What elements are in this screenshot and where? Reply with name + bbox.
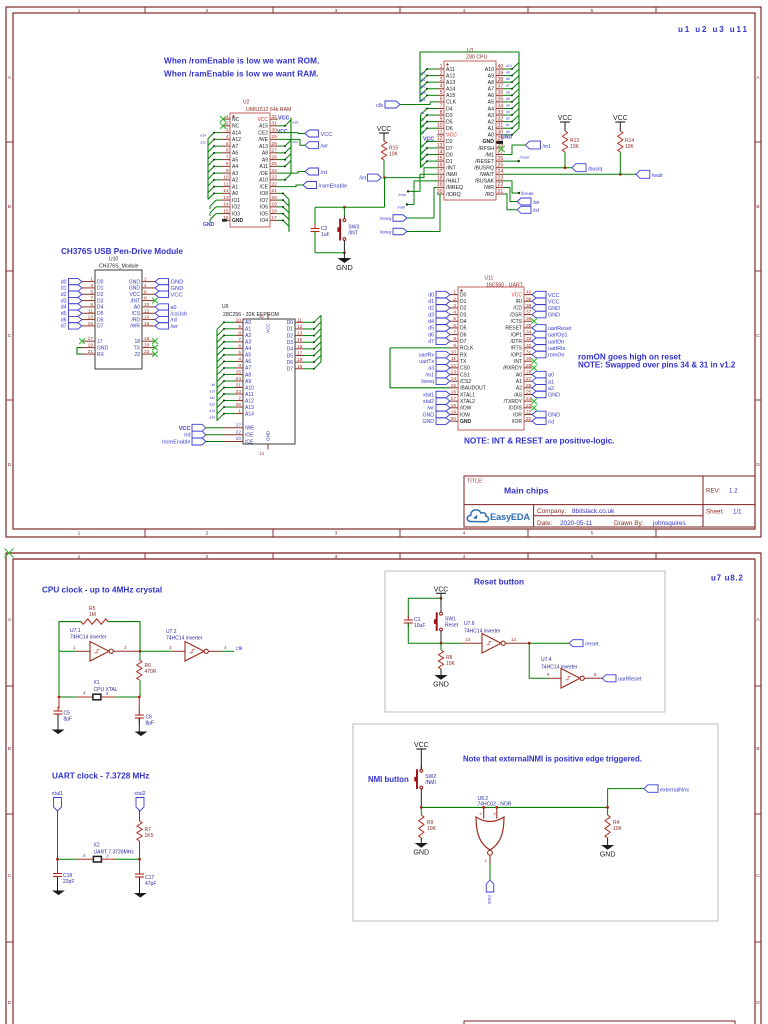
- svg-text:3: 3: [238, 363, 241, 369]
- svg-text:GND: GND: [336, 263, 353, 272]
- svg-text:8pF: 8pF: [64, 717, 73, 723]
- svg-text:2: 2: [226, 121, 229, 127]
- svg-text:74HC14 inverter: 74HC14 inverter: [70, 635, 107, 641]
- svg-text:a1: a1: [548, 379, 554, 385]
- svg-text:IO4: IO4: [260, 218, 268, 224]
- svg-text:/OP2: /OP2: [511, 352, 523, 358]
- svg-text:GND: GND: [413, 848, 429, 856]
- svg-text:/WE: /WE: [245, 426, 255, 432]
- svg-text:VCC: VCC: [558, 115, 573, 122]
- svg-text:TITLE:: TITLE:: [467, 479, 483, 485]
- svg-text:C: C: [756, 873, 760, 879]
- svg-text:GND: GND: [171, 280, 184, 286]
- svg-text:D3: D3: [97, 298, 104, 304]
- svg-text:2: 2: [124, 645, 127, 650]
- svg-text:A3: A3: [488, 113, 494, 119]
- svg-text:A9: A9: [262, 157, 268, 163]
- svg-text:4: 4: [226, 134, 229, 140]
- svg-text:3: 3: [226, 127, 229, 133]
- svg-text:14: 14: [259, 451, 264, 456]
- svg-text:5: 5: [440, 90, 443, 96]
- svg-text:a12: a12: [209, 403, 215, 407]
- svg-text:GND: GND: [422, 419, 434, 425]
- svg-text:VCC: VCC: [414, 742, 429, 749]
- svg-text:/WR: /WR: [130, 324, 140, 330]
- svg-text:a14: a14: [200, 134, 206, 138]
- svg-text:29: 29: [526, 363, 532, 369]
- svg-text:2: 2: [453, 296, 456, 302]
- svg-text:/wr: /wr: [533, 200, 540, 206]
- svg-text:u1 u2 u3 u11: u1 u2 u3 u11: [678, 25, 749, 34]
- svg-text:22: 22: [144, 349, 150, 355]
- svg-text:d6: d6: [428, 332, 434, 338]
- svg-text:26: 26: [236, 402, 242, 408]
- svg-text:D7: D7: [446, 146, 453, 152]
- svg-text:d0: d0: [61, 279, 67, 285]
- svg-text:/IOW: /IOW: [460, 406, 472, 412]
- svg-text:28C256 - 32K EEPROM: 28C256 - 32K EEPROM: [223, 312, 279, 318]
- svg-text:/WR: /WR: [484, 185, 494, 191]
- svg-text:/rd: /rd: [533, 208, 539, 214]
- svg-text:/mreq: /mreq: [379, 216, 391, 221]
- svg-text:3: 3: [440, 77, 443, 83]
- svg-text:/OE: /OE: [245, 433, 254, 439]
- svg-text:1: 1: [238, 409, 241, 415]
- svg-text:25: 25: [272, 161, 278, 167]
- svg-text:/MREQ: /MREQ: [446, 185, 463, 191]
- svg-text:6: 6: [440, 97, 443, 103]
- svg-text:IO3: IO3: [232, 211, 240, 217]
- svg-text:21: 21: [88, 349, 94, 355]
- svg-text:a0: a0: [506, 130, 510, 134]
- svg-text:26: 26: [526, 383, 532, 389]
- svg-text:A13: A13: [259, 144, 268, 150]
- svg-text:RX: RX: [460, 352, 468, 358]
- svg-text:a3: a3: [506, 110, 510, 114]
- svg-text:D7: D7: [287, 367, 294, 373]
- svg-text:/OP1: /OP1: [511, 332, 523, 338]
- svg-text:a10: a10: [506, 64, 512, 68]
- svg-text:26: 26: [272, 154, 278, 160]
- svg-text:D: D: [8, 1000, 12, 1006]
- svg-text:18: 18: [297, 357, 303, 363]
- svg-text:VCC: VCC: [321, 132, 333, 138]
- svg-text:d3: d3: [61, 298, 67, 304]
- svg-text:d6: d6: [61, 317, 67, 323]
- svg-text:GND: GND: [97, 345, 109, 351]
- svg-text:IO5: IO5: [260, 211, 268, 217]
- svg-text:A5: A5: [232, 157, 238, 163]
- svg-text:D1: D1: [446, 159, 453, 165]
- svg-text:U2: U2: [243, 100, 250, 106]
- svg-text:INT: INT: [514, 359, 522, 365]
- svg-text:U1: U1: [467, 48, 474, 54]
- svg-text:/busrq: /busrq: [588, 167, 603, 173]
- svg-text:13: 13: [465, 637, 470, 642]
- svg-text:9: 9: [440, 116, 443, 122]
- svg-text:18: 18: [437, 176, 443, 182]
- svg-text:uartReset: uartReset: [618, 677, 642, 683]
- svg-text:a9: a9: [506, 71, 510, 75]
- svg-text:RCLK: RCLK: [460, 346, 474, 352]
- svg-text:VCC: VCC: [511, 292, 522, 298]
- svg-text:3: 3: [106, 691, 109, 696]
- svg-text:A4: A4: [245, 346, 251, 352]
- svg-text:/RTS: /RTS: [511, 346, 523, 352]
- svg-text:1: 1: [90, 277, 93, 283]
- svg-text:4: 4: [463, 8, 466, 14]
- svg-text:CS1: CS1: [460, 372, 470, 378]
- svg-text:/WAIT: /WAIT: [480, 172, 495, 178]
- svg-text:X1: X1: [94, 680, 100, 686]
- svg-text:GND: GND: [129, 279, 141, 285]
- svg-text:3: 3: [335, 554, 338, 560]
- svg-text:Sheet:: Sheet:: [706, 509, 724, 516]
- svg-text:a0: a0: [171, 305, 177, 311]
- svg-text:GND: GND: [129, 286, 141, 292]
- svg-text:19: 19: [437, 182, 443, 188]
- svg-text:24: 24: [498, 169, 504, 175]
- svg-text:A11: A11: [446, 67, 455, 73]
- svg-text:Date:: Date:: [537, 520, 552, 527]
- svg-text:36: 36: [498, 90, 504, 96]
- svg-text:U7.2: U7.2: [166, 629, 177, 635]
- svg-text:/WE: /WE: [259, 137, 269, 143]
- svg-text:a13: a13: [420, 85, 426, 89]
- svg-text:RX: RX: [97, 352, 105, 358]
- svg-text:uartOp1: uartOp1: [548, 333, 567, 339]
- svg-text:D6: D6: [446, 126, 453, 132]
- svg-text:23: 23: [236, 389, 242, 395]
- svg-text:a12: a12: [420, 78, 426, 82]
- svg-text:24: 24: [236, 376, 242, 382]
- svg-text:VCC: VCC: [257, 117, 268, 123]
- svg-text:21: 21: [272, 188, 278, 194]
- svg-text:a2: a2: [506, 117, 510, 121]
- svg-text:1M: 1M: [89, 612, 96, 618]
- svg-text:A14: A14: [446, 87, 455, 93]
- svg-text:/reset: /reset: [585, 642, 599, 648]
- svg-text:d5: d5: [428, 326, 434, 332]
- svg-text:25: 25: [236, 369, 242, 375]
- svg-text:8pF: 8pF: [146, 721, 155, 727]
- svg-text:32: 32: [526, 343, 532, 349]
- svg-text:a7: a7: [506, 84, 510, 88]
- svg-text:10: 10: [144, 302, 150, 308]
- svg-text:/CTS: /CTS: [511, 319, 523, 325]
- svg-text:4: 4: [453, 310, 456, 316]
- svg-text:d7: d7: [61, 324, 67, 330]
- svg-text:A4: A4: [232, 164, 238, 170]
- svg-text:D5: D5: [287, 353, 294, 359]
- svg-text:3: 3: [453, 303, 456, 309]
- svg-text:13: 13: [451, 370, 457, 376]
- svg-text:GND: GND: [460, 419, 472, 425]
- svg-text:/m1: /m1: [425, 372, 434, 378]
- svg-text:a12: a12: [200, 140, 206, 144]
- svg-text:2: 2: [144, 277, 147, 283]
- svg-text:A13: A13: [446, 80, 455, 86]
- svg-text:/RI: /RI: [516, 299, 522, 305]
- svg-text:CLK: CLK: [446, 100, 457, 106]
- svg-text:D: D: [756, 462, 760, 468]
- svg-text:D3: D3: [287, 340, 294, 346]
- svg-text:A8: A8: [262, 151, 268, 157]
- svg-text:11: 11: [437, 130, 442, 136]
- svg-text:a13: a13: [209, 409, 215, 413]
- svg-text:14: 14: [144, 315, 150, 321]
- svg-text:D1: D1: [97, 286, 104, 292]
- svg-text:A9: A9: [245, 379, 251, 385]
- svg-text:17: 17: [97, 339, 103, 345]
- svg-text:/reset: /reset: [520, 154, 531, 159]
- svg-text:A0: A0: [232, 191, 238, 197]
- svg-text:VCC: VCC: [377, 126, 392, 133]
- svg-text:A9: A9: [488, 73, 494, 79]
- svg-text:9: 9: [547, 672, 550, 677]
- svg-text:GND: GND: [232, 218, 244, 224]
- svg-text:5: 5: [591, 531, 594, 537]
- svg-text:12: 12: [144, 308, 150, 314]
- svg-text:18: 18: [144, 336, 150, 342]
- svg-text:14: 14: [223, 202, 229, 208]
- svg-text:/CE: /CE: [260, 184, 269, 190]
- svg-text:12: 12: [223, 188, 229, 194]
- svg-text:20: 20: [451, 416, 457, 422]
- svg-text:/RD: /RD: [485, 192, 494, 198]
- svg-text:14: 14: [451, 376, 457, 382]
- svg-text:/BUSRQ: /BUSRQ: [474, 166, 494, 172]
- svg-text:A2: A2: [488, 119, 494, 125]
- svg-text:uartRts: uartRts: [548, 346, 566, 352]
- svg-text:VCC: VCC: [278, 116, 289, 122]
- svg-text:VCC: VCC: [548, 293, 559, 299]
- svg-text:22pF: 22pF: [63, 879, 74, 885]
- svg-text:40: 40: [498, 64, 504, 70]
- svg-text:NC: NC: [232, 124, 240, 130]
- svg-text:a15: a15: [420, 98, 426, 102]
- svg-text:A10: A10: [485, 67, 494, 73]
- svg-text:1: 1: [78, 554, 81, 560]
- svg-text:A4: A4: [488, 106, 494, 112]
- svg-text:A5: A5: [245, 353, 251, 359]
- svg-text:25: 25: [526, 390, 532, 396]
- svg-text:D6: D6: [460, 332, 467, 338]
- svg-text:6: 6: [453, 323, 456, 329]
- svg-text:a3: a3: [428, 366, 434, 372]
- svg-text:D4: D4: [446, 106, 453, 112]
- svg-text:17: 17: [437, 169, 443, 175]
- svg-text:CE2: CE2: [258, 130, 268, 136]
- svg-text:U7.6: U7.6: [464, 621, 475, 627]
- svg-text:/DSR: /DSR: [510, 312, 522, 318]
- svg-text:8: 8: [226, 161, 229, 167]
- svg-text:GND: GND: [548, 393, 560, 399]
- svg-text:D1: D1: [460, 299, 467, 305]
- svg-text:34: 34: [498, 103, 504, 109]
- svg-text:24: 24: [272, 168, 278, 174]
- svg-text:IOR: IOR: [513, 412, 522, 418]
- svg-text:27: 27: [236, 423, 242, 429]
- svg-text:A7: A7: [488, 87, 494, 93]
- svg-text:A13: A13: [245, 405, 254, 411]
- svg-text:/IOR: /IOR: [512, 419, 523, 425]
- svg-text:D3: D3: [446, 113, 453, 119]
- svg-text:D: D: [8, 462, 12, 468]
- svg-text:u7 u8.2: u7 u8.2: [711, 574, 743, 583]
- svg-text:A11: A11: [245, 392, 254, 398]
- svg-text:/CS2: /CS2: [460, 379, 471, 385]
- svg-text:/ioreq: /ioreq: [380, 230, 392, 235]
- svg-text:CPU clock - up to 4MHz crystal: CPU clock - up to 4MHz crystal: [42, 586, 162, 595]
- svg-text:23: 23: [498, 176, 504, 182]
- svg-text:D7: D7: [97, 324, 104, 330]
- svg-text:Drawn By:: Drawn By:: [614, 520, 644, 527]
- svg-text:20: 20: [144, 343, 150, 349]
- svg-text:31: 31: [272, 121, 278, 127]
- svg-text:5: 5: [453, 316, 456, 322]
- svg-text:xtal1: xtal1: [423, 392, 434, 398]
- svg-text:1: 1: [73, 645, 76, 650]
- svg-text:/wr: /wr: [321, 144, 329, 150]
- svg-text:VCC: VCC: [129, 292, 140, 298]
- svg-text:37: 37: [526, 310, 532, 316]
- svg-text:7: 7: [453, 330, 456, 336]
- svg-text:CH376S_Module: CH376S_Module: [99, 264, 139, 270]
- svg-text:2: 2: [206, 8, 209, 14]
- svg-text:/m1: /m1: [543, 144, 552, 150]
- svg-text:D0: D0: [97, 279, 104, 285]
- svg-text:A8: A8: [488, 80, 494, 86]
- svg-text:A15: A15: [259, 124, 268, 130]
- svg-text:a5: a5: [506, 97, 510, 101]
- svg-text:B: B: [8, 746, 11, 752]
- svg-text:D2: D2: [287, 333, 294, 339]
- svg-text:1: 1: [453, 290, 456, 296]
- svg-text:38: 38: [526, 303, 532, 309]
- svg-text:/INT: /INT: [131, 298, 140, 304]
- svg-text:3: 3: [90, 283, 93, 289]
- svg-text:17: 17: [451, 396, 457, 402]
- svg-text:xtal2: xtal2: [134, 791, 145, 797]
- svg-text:1: 1: [78, 8, 81, 14]
- svg-text:15: 15: [88, 321, 94, 327]
- svg-text:18: 18: [451, 403, 457, 409]
- svg-text:/DTR: /DTR: [510, 339, 522, 345]
- svg-text:D2: D2: [97, 292, 104, 298]
- svg-text:/CS: /CS: [132, 311, 141, 317]
- svg-text:9: 9: [90, 302, 93, 308]
- svg-text:/RD: /RD: [131, 317, 140, 323]
- svg-text:36: 36: [526, 316, 532, 322]
- svg-text:A6: A6: [488, 93, 494, 99]
- svg-text:3: 3: [169, 645, 172, 650]
- svg-text:/RXRDY: /RXRDY: [503, 366, 523, 372]
- svg-text:externalNmi: externalNmi: [660, 787, 689, 793]
- svg-text:A12: A12: [245, 398, 254, 404]
- svg-text:8: 8: [594, 672, 597, 677]
- svg-text:40: 40: [526, 290, 532, 296]
- svg-text:Main chips: Main chips: [504, 486, 549, 496]
- svg-text:A8: A8: [245, 372, 251, 378]
- svg-text:D2: D2: [460, 306, 467, 312]
- svg-text:17: 17: [297, 351, 303, 357]
- svg-text:/rd: /rd: [548, 419, 554, 425]
- svg-text:A0: A0: [488, 133, 494, 139]
- svg-text:19: 19: [272, 202, 278, 208]
- svg-text:d0: d0: [428, 292, 434, 298]
- svg-text:GND: GND: [482, 139, 494, 145]
- svg-text:34: 34: [526, 330, 532, 336]
- svg-text:REV:: REV:: [706, 488, 720, 495]
- svg-text:31: 31: [498, 123, 504, 129]
- svg-text:15: 15: [437, 156, 443, 162]
- svg-text:VCC: VCC: [277, 129, 288, 135]
- svg-text:7: 7: [226, 154, 229, 160]
- svg-text:9: 9: [453, 343, 456, 349]
- svg-text:4: 4: [485, 859, 487, 863]
- svg-text:d4: d4: [61, 305, 67, 311]
- svg-text:4: 4: [238, 356, 241, 362]
- svg-text:Z80 CPU: Z80 CPU: [466, 55, 488, 61]
- svg-text:VCC: VCC: [171, 292, 183, 298]
- svg-text:/int: /int: [359, 176, 366, 182]
- svg-text:D2: D2: [446, 139, 453, 145]
- svg-text:When /romEnable is low we want: When /romEnable is low we want ROM.: [164, 57, 319, 66]
- svg-text:1: 1: [440, 64, 443, 70]
- svg-text:6: 6: [238, 343, 241, 349]
- svg-text:Note that externalNMI is posit: Note that externalNMI is positive edge t…: [463, 755, 642, 764]
- svg-text:D4: D4: [287, 347, 294, 353]
- svg-text:GND: GND: [433, 680, 449, 688]
- svg-text:1: 1: [226, 114, 229, 120]
- svg-text:21: 21: [526, 416, 532, 422]
- svg-text:A12: A12: [446, 73, 455, 79]
- svg-text:A: A: [8, 617, 12, 623]
- svg-text:clk: clk: [236, 646, 243, 652]
- svg-text:A1: A1: [245, 327, 251, 333]
- svg-text:B: B: [756, 204, 759, 210]
- svg-text:24: 24: [526, 396, 532, 402]
- svg-text:32: 32: [498, 116, 504, 122]
- svg-text:2: 2: [206, 531, 209, 537]
- svg-text:D: D: [756, 1000, 760, 1006]
- svg-text:A11: A11: [259, 164, 268, 170]
- svg-text:33: 33: [498, 110, 504, 116]
- svg-text:/halt: /halt: [397, 205, 405, 210]
- svg-text:35: 35: [498, 97, 504, 103]
- svg-text:A1: A1: [516, 379, 522, 385]
- svg-text:RESET: RESET: [505, 326, 522, 332]
- svg-text:a13: a13: [293, 140, 299, 144]
- svg-text:VCC: VCC: [446, 133, 457, 139]
- svg-text:D0: D0: [460, 292, 467, 298]
- svg-text:2020-05-11: 2020-05-11: [560, 520, 593, 527]
- svg-text:/INT: /INT: [446, 166, 457, 172]
- svg-text:11: 11: [224, 181, 229, 187]
- svg-text:A0: A0: [245, 320, 251, 326]
- svg-text:16: 16: [297, 344, 303, 350]
- svg-text:32: 32: [272, 114, 278, 120]
- svg-text:13: 13: [437, 143, 443, 149]
- svg-text:johnsquires: johnsquires: [652, 520, 686, 527]
- svg-text:A3: A3: [245, 340, 251, 346]
- svg-text:U7.1: U7.1: [70, 628, 81, 634]
- svg-text:16: 16: [144, 321, 150, 327]
- svg-text:/INT: /INT: [348, 231, 357, 237]
- svg-text:D7: D7: [460, 339, 467, 345]
- svg-text:/RFSH: /RFSH: [478, 146, 494, 152]
